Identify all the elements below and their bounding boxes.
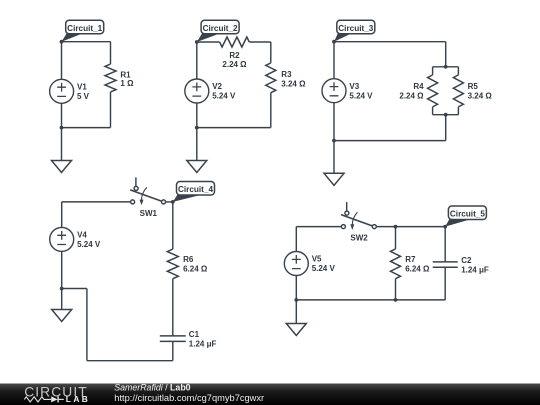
wire circuit2 bottom rail (197, 127, 271, 129)
svg-text:R7: R7 (405, 255, 416, 264)
label R6 value (183, 255, 208, 273)
wire circuit5 R7 lead top (395, 227, 397, 249)
capacitor C1 (160, 336, 186, 361)
wire circuit4 left return vertical (86, 289, 88, 361)
label V2 value (212, 82, 236, 101)
svg-text:1.24 μF: 1.24 μF (461, 265, 489, 274)
wire circuit3 top rail (334, 41, 446, 43)
wire circuit1 bottom rail (62, 127, 111, 129)
wire circuit3 bottom rail (334, 140, 446, 142)
wire circuit3 right drop to parallel pair (445, 42, 447, 67)
label V1 value (77, 82, 90, 101)
label R4 value (399, 82, 424, 101)
svg-text:5.24 V: 5.24 V (77, 240, 101, 249)
voltage source V3 (322, 79, 346, 103)
wire circuit2 left branch bottom (196, 103, 198, 128)
node circuit3 top (332, 40, 336, 44)
wire parallel bottom connector (433, 114, 459, 116)
resistor R1 (105, 42, 116, 128)
wire circuit2 ground stem (196, 128, 198, 161)
label R7 value (405, 255, 430, 273)
label V4 value (77, 231, 101, 250)
footer url (114, 393, 264, 403)
svg-text:2.24 Ω: 2.24 Ω (222, 60, 247, 69)
svg-text:5.24 V: 5.24 V (312, 264, 336, 273)
wire circuit2 top-left lead (197, 41, 220, 43)
wire parallel top connector (433, 66, 459, 68)
svg-text:Circuit_3: Circuit_3 (338, 24, 373, 33)
node parallel bottom junction (444, 113, 448, 117)
wire circuit3 left branch bottom (333, 103, 335, 141)
svg-text:C2: C2 (461, 256, 472, 265)
svg-text:Circuit_5: Circuit_5 (450, 210, 485, 219)
label R5 value (468, 82, 493, 101)
svg-text:SamerRafidi / Lab0: SamerRafidi / Lab0 (114, 383, 190, 393)
ground circuit1 (52, 161, 72, 173)
ground circuit5 (286, 324, 306, 336)
resistor R6 (167, 249, 178, 279)
svg-text:5 V: 5 V (77, 92, 90, 101)
svg-text:2.24 Ω: 2.24 Ω (399, 92, 424, 101)
wire circuit4 ground stem (61, 289, 63, 310)
node circuit3 bottom (332, 139, 336, 143)
wire circuit3 left branch top (333, 42, 335, 79)
svg-text:R5: R5 (468, 82, 479, 91)
capacitor C2 (433, 262, 458, 300)
node circuit5 R7 junction (394, 225, 398, 229)
node circuit2 top (195, 40, 199, 44)
svg-text:SW2: SW2 (350, 234, 368, 243)
logo CIRCUIT wordmark (24, 384, 88, 399)
label R1 value (120, 70, 134, 88)
wire circuit4 left branch top (61, 202, 63, 228)
ground circuit3 (324, 173, 344, 185)
resistor R4 (428, 67, 438, 115)
voltage source V1 (50, 79, 74, 103)
svg-text:R6: R6 (183, 255, 194, 264)
logo resistor zigzag (24, 397, 51, 402)
svg-text:LAB: LAB (66, 394, 90, 404)
net flag Circuit_1 (62, 20, 104, 42)
svg-text:5.24 V: 5.24 V (349, 91, 373, 100)
wire circuit5 top rail right (396, 226, 446, 228)
wire circuit5 left branch bottom (295, 276, 297, 300)
wire circuit4 top rail left (62, 201, 131, 203)
svg-text:3.24 Ω: 3.24 Ω (468, 92, 493, 101)
switch SW1 (130, 177, 165, 205)
svg-text:SW1: SW1 (140, 209, 158, 218)
label V5 value (312, 255, 336, 274)
svg-text:http://circuitlab.com/cg7qmyb7: http://circuitlab.com/cg7qmyb7cgwxr (114, 393, 264, 403)
wire circuit1 top rail (62, 41, 111, 43)
node circuit4 switch output (171, 200, 175, 204)
node parallel top junction (444, 65, 448, 69)
resistor R7 (391, 249, 401, 300)
svg-text:V3: V3 (349, 82, 359, 91)
wire circuit4 return horizontal (62, 288, 87, 290)
label C2 value (461, 256, 489, 274)
wire circuit1 left branch bottom (61, 103, 63, 127)
wire circuit4 bottom rail (87, 360, 173, 362)
svg-text:Circuit_1: Circuit_1 (67, 24, 102, 33)
svg-text:3.24 Ω: 3.24 Ω (281, 79, 306, 88)
wire circuit5 left branch top (295, 227, 297, 252)
svg-text:6.24 Ω: 6.24 Ω (183, 265, 208, 274)
svg-text:5.24 V: 5.24 V (212, 92, 236, 101)
wire circuit4 left branch bottom (61, 251, 63, 288)
svg-text:Circuit_4: Circuit_4 (178, 185, 213, 194)
ground circuit2 (187, 161, 207, 173)
label R2 value (222, 51, 247, 69)
switch SW2 (341, 202, 376, 230)
node circuit1 top (60, 40, 64, 44)
svg-text:1 Ω: 1 Ω (120, 79, 134, 88)
resistor R5 (453, 67, 463, 115)
svg-text:Circuit_2: Circuit_2 (203, 24, 238, 33)
resistor R2 (220, 37, 271, 47)
wire circuit5 bottom rail (296, 299, 445, 301)
node circuit5 bottom R7 (394, 298, 398, 302)
node circuit1 bottom (60, 126, 64, 130)
wire circuit1 left branch top (61, 42, 63, 80)
label V3 value (349, 82, 373, 101)
wire circuit3 ground stem (333, 141, 335, 174)
net flag Circuit_2 (197, 20, 239, 42)
logo diode (51, 396, 64, 402)
voltage source V2 (185, 79, 209, 103)
label R3 value (281, 70, 306, 89)
net flag Circuit_5 (445, 206, 486, 227)
wire circuit4 right branch (172, 202, 174, 249)
svg-text:R2: R2 (229, 51, 240, 60)
svg-text:R3: R3 (281, 70, 292, 79)
wire circuit5 C2 lead top (444, 227, 446, 262)
node circuit4 bottom (60, 287, 64, 291)
wire circuit3 right drop to bottom rail (445, 115, 447, 141)
voltage source V5 (284, 252, 308, 276)
logo LAB wordmark (66, 394, 90, 404)
label C1 value (189, 330, 217, 348)
svg-text:V1: V1 (77, 82, 87, 91)
node circuit5 C2 junction (443, 225, 447, 229)
wire circuit5 ground stem (295, 300, 297, 324)
svg-text:R4: R4 (413, 82, 424, 91)
svg-text:6.24 Ω: 6.24 Ω (405, 264, 430, 273)
svg-text:V4: V4 (77, 231, 87, 240)
node circuit2 bottom (195, 126, 199, 130)
voltage source V4 (50, 227, 74, 251)
svg-text:V2: V2 (212, 82, 222, 91)
footer title SamerRafidi / Lab0 (114, 383, 190, 393)
wire circuit2 right branch top (270, 42, 272, 63)
wire circuit4 switch to node (166, 201, 173, 203)
footer bar (0, 384, 540, 405)
net flag Circuit_3 (334, 20, 375, 42)
ground circuit4 (52, 310, 72, 322)
wire circuit5 switch to R7 node (376, 226, 395, 228)
svg-text:V5: V5 (312, 255, 322, 264)
resistor R3 (266, 63, 276, 128)
wire circuit1 ground stem (61, 128, 63, 161)
net flag Circuit_4 (173, 182, 215, 202)
svg-text:1.24 μF: 1.24 μF (189, 339, 217, 348)
wire circuit4 R6 to C1 (172, 279, 174, 336)
node circuit5 bottom left (294, 298, 298, 302)
svg-text:R1: R1 (120, 70, 131, 79)
wire circuit5 top rail left (296, 226, 341, 228)
svg-text:C1: C1 (189, 330, 200, 339)
wire circuit2 left branch top (196, 42, 198, 79)
